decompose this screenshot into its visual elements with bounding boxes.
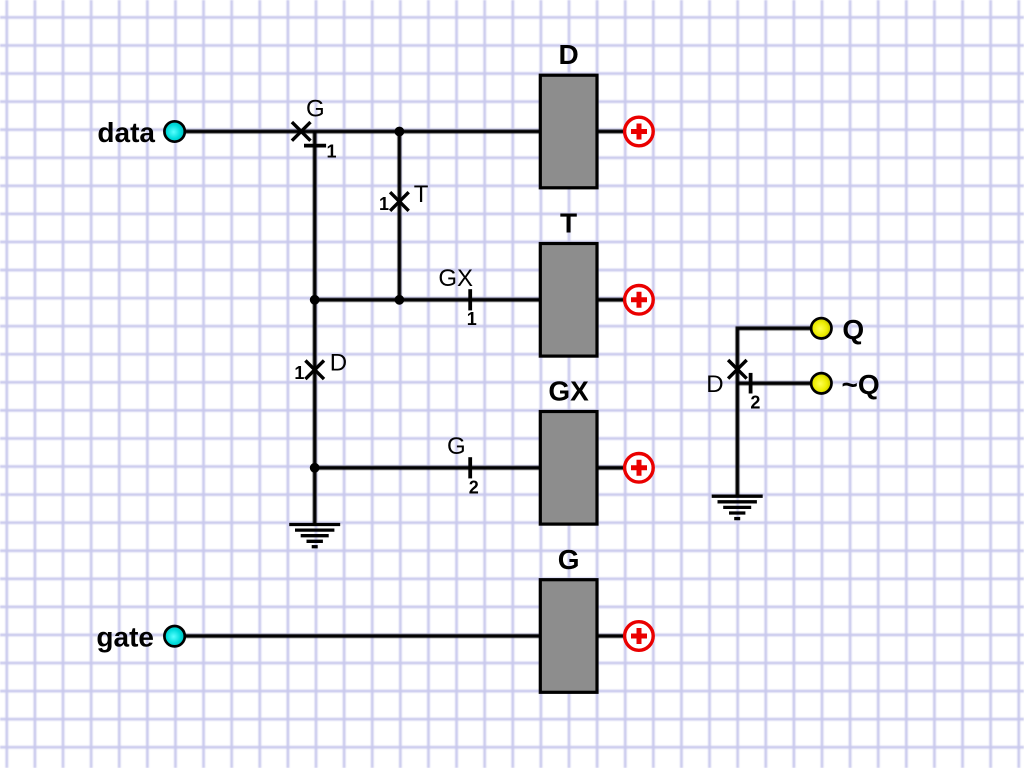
supply symbol G [625,622,654,651]
wire ~Q row [737,381,811,385]
wire G output pin [597,634,625,638]
svg-text:Q: Q [842,314,864,345]
svg-text:D: D [330,350,347,377]
module box D [540,75,597,188]
svg-text:GX: GX [548,376,589,407]
width tick 2 on GX row [468,457,472,478]
wire right vertical to ground [737,328,811,496]
svg-text:G: G [558,544,580,575]
svg-text:2: 2 [750,393,760,413]
supply symbol D [625,117,654,146]
width tick 1 on T row [468,289,472,310]
wire GX row [315,466,541,470]
svg-text:T: T [560,208,577,239]
svg-text:G: G [306,96,325,123]
wire T output pin [597,298,625,302]
svg-text:~Q: ~Q [842,369,880,400]
junction dot T row left [310,295,320,305]
wire GX output pin [597,466,625,470]
svg-text:T: T [414,181,429,208]
wire data row [178,130,540,134]
width tick 2 on ~Q wire [749,373,753,394]
module box G [540,580,597,693]
ground right [712,496,763,518]
svg-text:1: 1 [326,142,336,162]
ground left [289,525,340,547]
output terminal Q [811,318,831,338]
junction dot T row mid [395,295,405,305]
input terminal data [164,121,184,141]
junction dot GX row [310,463,320,473]
svg-text:D: D [706,371,723,398]
X mark net D on vertical wire [305,361,324,380]
output terminal ~Q [811,373,831,393]
wire T row [315,298,541,302]
X mark net G on data wire [292,122,311,141]
svg-text:1: 1 [379,194,389,214]
supply symbol GX [625,454,654,483]
svg-text:D: D [558,39,578,70]
svg-text:1: 1 [467,309,477,329]
width tick 1 on data branch vertical [304,144,326,148]
svg-text:gate: gate [96,621,154,652]
svg-text:data: data [97,117,155,148]
svg-text:1: 1 [294,363,304,383]
X mark net T on vertical wire [390,192,409,211]
input terminal gate [164,626,184,646]
wire vertical from data corner down to ground [313,132,317,526]
svg-text:G: G [447,433,466,460]
wire gate row [178,634,540,638]
wire vertical tap at x=399 [397,132,401,300]
svg-text:GX: GX [438,265,473,292]
svg-text:2: 2 [469,478,479,498]
X mark net D right circuit [728,360,747,379]
module box T [540,244,597,357]
supply symbol T [625,286,654,315]
junction dot on data row [395,127,405,137]
module box GX [540,412,597,525]
wire D output pin [597,130,625,134]
